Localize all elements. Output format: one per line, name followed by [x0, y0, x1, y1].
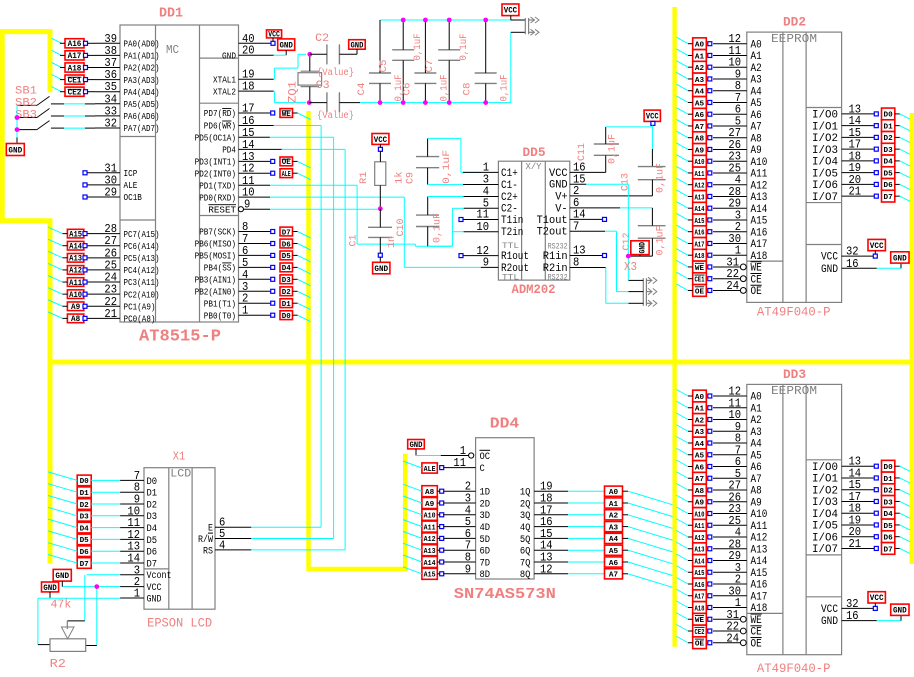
svg-text:ALE: ALE	[282, 171, 291, 179]
svg-text:GND: GND	[821, 616, 838, 628]
svg-text:Vcont: Vcont	[147, 571, 172, 582]
svg-text:VCC: VCC	[870, 593, 884, 603]
svg-text:PC1(A9): PC1(A9)	[124, 302, 156, 312]
svg-text:A10: A10	[694, 159, 704, 167]
svg-text:A4: A4	[695, 441, 705, 449]
svg-text:A2: A2	[751, 415, 762, 427]
net label A1 at DD4 output	[605, 498, 673, 517]
svg-text:CE: CE	[751, 627, 763, 639]
svg-text:A9: A9	[695, 147, 704, 155]
capacitor C10 0.1uF	[416, 197, 439, 247]
svg-text:C9: C9	[405, 172, 416, 184]
svg-text:20: 20	[242, 44, 255, 58]
DD3 pin 3 A15 wire	[713, 561, 767, 580]
net label CE2 at DD1	[52, 87, 95, 98]
DD4 pin 19 1Q wire	[520, 480, 605, 499]
wire RW to column	[251, 538, 333, 540]
svg-text:A15: A15	[424, 572, 436, 580]
net label D2 at DD1	[280, 287, 311, 298]
DD5 pin 7 T2out wire	[570, 230, 605, 232]
svg-text:A9: A9	[751, 497, 762, 509]
svg-text:A14: A14	[69, 243, 82, 252]
net label A11 at DD3	[676, 519, 711, 531]
net label A7 at DD3	[676, 472, 711, 484]
net label A15 at DD1	[48, 227, 87, 239]
DD3 pin 32 VCC wire	[821, 597, 877, 616]
DD5 pin 14 T1out	[537, 208, 586, 227]
DD1 pin 4 PB3(AIN1) wire	[195, 268, 275, 286]
DD1 pin 19 XTAL1 wire	[213, 68, 274, 86]
value 1n of C1	[387, 236, 398, 248]
svg-text:PA3(AD3): PA3(AD3)	[124, 76, 160, 86]
svg-text:D1: D1	[884, 476, 894, 484]
net label A13 at DD4	[403, 543, 440, 556]
svg-text:C6: C6	[402, 83, 413, 96]
svg-text:A4: A4	[695, 89, 705, 97]
svg-text:I/O7: I/O7	[812, 544, 838, 556]
net label A18 at DD2	[676, 249, 711, 261]
svg-text:A18: A18	[694, 605, 704, 613]
label C7	[425, 60, 436, 73]
svg-text:R2: R2	[50, 657, 66, 671]
svg-text:A11: A11	[751, 521, 768, 533]
svg-text:A5: A5	[751, 98, 762, 110]
svg-text:X1: X1	[173, 450, 185, 464]
svg-text:A2: A2	[751, 63, 762, 75]
wire VCC to C11 and C13	[606, 125, 653, 166]
DD3 pin 11 A1 wire	[713, 396, 762, 415]
label AT49F040-P of DD2	[757, 305, 831, 320]
label EPSON LCD	[147, 616, 212, 631]
ground GND upper at X1	[53, 569, 71, 586]
DD1 pin 16 wire	[239, 125, 274, 127]
svg-text:GND: GND	[821, 264, 838, 276]
svg-text:A10: A10	[751, 509, 768, 521]
svg-text:A4: A4	[751, 439, 763, 451]
DD3 pin 23 A10 wire	[713, 502, 767, 521]
DD1 pin 12 PD2(INT0)	[195, 162, 255, 180]
DD1 pin 32 PA7(AD7) wire	[95, 117, 160, 135]
svg-text:XTAL2: XTAL2	[213, 87, 236, 97]
DD2 pin 15 I/O2 wire	[812, 126, 874, 145]
DD5 pin 16 VCC	[549, 161, 586, 180]
wire XTAL2 to crystal bottom rail	[274, 91, 306, 103]
svg-text:A18: A18	[68, 64, 82, 73]
svg-text:8Q: 8Q	[520, 570, 531, 581]
svg-text:C1-: C1-	[501, 180, 518, 192]
DD5 pin 9 wire	[481, 266, 499, 268]
DD1 pin 16 PD6(WR)	[204, 114, 255, 132]
capacitor C7 0.1uF	[438, 20, 460, 103]
svg-text:DD2: DD2	[783, 15, 806, 30]
svg-text:RESET: RESET	[208, 205, 236, 215]
X1 pin 2 VCC wire	[120, 575, 161, 594]
svg-text:I/O3: I/O3	[812, 145, 838, 157]
DD2 pin 5 A7 wire	[713, 114, 762, 133]
capacitor C5 0.1uF	[392, 20, 414, 103]
svg-text:A13: A13	[751, 544, 768, 556]
bus mid vertical with DD4 branch	[309, 111, 406, 569]
wire C10 bottom to DD5 C2-	[428, 208, 464, 246]
svg-text:GND: GND	[893, 253, 907, 263]
DD1 pin 11 TXD wire	[239, 184, 271, 186]
DD3 pin 29 A14 wire	[713, 549, 768, 568]
svg-text:D1: D1	[282, 301, 292, 309]
value 0.1uF of C10	[433, 213, 444, 243]
svg-text:A2: A2	[609, 513, 618, 521]
net label A2 at DD2	[676, 61, 711, 73]
svg-text:PD4: PD4	[222, 146, 236, 156]
junction C6 bottom	[423, 100, 428, 105]
capacitor C6 0.1uF	[414, 20, 436, 103]
wire T2in tap	[452, 231, 463, 233]
DD4 pin 6 5D wire	[440, 527, 490, 546]
svg-text:D5: D5	[282, 253, 291, 261]
svg-text:PB0(T0): PB0(T0)	[204, 311, 236, 321]
svg-text:A17: A17	[751, 591, 768, 603]
net label A11 at DD1	[48, 276, 87, 288]
DD3 pin 24 OE wire	[713, 631, 762, 650]
svg-text:7D: 7D	[480, 558, 491, 569]
svg-text:16: 16	[846, 609, 859, 623]
DD1 pin 17 wire to WE label	[239, 111, 275, 115]
label C5	[379, 60, 390, 73]
net label D3 at X1	[48, 507, 120, 521]
svg-text:D3: D3	[282, 277, 291, 285]
DD5 pin 2 V+ wire	[570, 195, 653, 197]
net label D0 at DD1	[280, 311, 311, 322]
svg-text:A1: A1	[751, 51, 763, 63]
svg-text:2Q: 2Q	[520, 499, 531, 510]
svg-text:A12: A12	[751, 533, 768, 545]
DD2 pin 2 A16 wire	[713, 220, 767, 239]
net label D5 at DD2	[874, 167, 910, 179]
net label A0 at DD3	[676, 390, 711, 402]
net label A4 at DD2	[676, 84, 711, 96]
svg-text:1: 1	[134, 587, 140, 601]
net label A17 at DD1	[52, 50, 95, 61]
svg-text:47k: 47k	[51, 598, 72, 612]
DD2 pin 8 A4 wire	[713, 79, 762, 98]
svg-text:A5: A5	[609, 548, 618, 556]
svg-text:D7: D7	[80, 561, 89, 569]
svg-text:GND: GND	[638, 242, 648, 254]
DD2 pin 30 A17 wire	[713, 232, 767, 251]
DD5 pin 6 V-	[555, 196, 579, 215]
net label A7 at DD2	[676, 119, 711, 131]
net label A7 at DD4 output	[605, 569, 673, 588]
svg-text:A11: A11	[751, 169, 768, 181]
net label A12 at DD4	[403, 531, 440, 544]
label DD4	[490, 416, 520, 433]
DD3 pin 10 A2 wire	[713, 408, 762, 427]
svg-text:16: 16	[846, 257, 859, 271]
label SN74AS573N	[454, 586, 556, 603]
svg-text:GND: GND	[55, 571, 69, 581]
DD1 pin 10 RXD wire	[239, 196, 271, 198]
svg-text:A13: A13	[694, 194, 704, 202]
svg-text:SN74AS573N: SN74AS573N	[454, 586, 556, 603]
net label D3 at DD2	[874, 143, 910, 155]
net label A8 at DD3	[676, 484, 711, 496]
svg-text:PB1(T1): PB1(T1)	[204, 299, 236, 309]
DD2 pin 16 GND wire	[821, 257, 901, 276]
wire GND pin to R2 left	[38, 598, 120, 644]
net label A4 at DD3	[676, 437, 711, 449]
svg-text:8D: 8D	[480, 570, 491, 581]
svg-text:C10: C10	[396, 219, 407, 237]
svg-text:A12: A12	[751, 180, 768, 192]
svg-text:A14: A14	[694, 206, 705, 214]
DD3 pin 8 A4 wire	[713, 432, 762, 451]
net label A14 at DD3	[676, 554, 711, 566]
DD1 pin 14 PD4	[222, 138, 254, 156]
svg-text:DD4: DD4	[490, 416, 520, 433]
svg-text:A9: A9	[751, 145, 762, 157]
DD1 pin 3 PB2(AIN0) wire	[195, 280, 275, 298]
DD1 pin 13 PD3(INT1)	[195, 150, 255, 168]
net label CE1 at DD2	[676, 272, 711, 284]
svg-text:I/O6: I/O6	[812, 532, 838, 544]
DD1 pin 13 wire to OE label	[239, 159, 275, 163]
DD2 pin 19 I/O5 wire	[812, 161, 874, 180]
DD5 pin 15 GND	[549, 172, 586, 191]
label C10	[396, 219, 407, 237]
DD5 pin 5 wire	[464, 207, 499, 209]
svg-text:I/O0: I/O0	[812, 110, 838, 122]
svg-text:9: 9	[244, 198, 250, 212]
svg-text:A8: A8	[695, 136, 704, 144]
wire E to column	[251, 526, 321, 528]
DD4 pin 2 1D wire	[440, 480, 490, 499]
wire SB common rail to GND	[16, 105, 18, 143]
svg-text:A10: A10	[751, 157, 768, 169]
svg-text:VCC: VCC	[821, 604, 838, 616]
svg-text:A10: A10	[69, 291, 82, 300]
svg-text:D3: D3	[147, 512, 158, 523]
svg-text:DD3: DD3	[783, 367, 806, 382]
DD3 pin 6 A6 wire	[713, 455, 762, 474]
svg-text:PB4(SS): PB4(SS)	[204, 264, 236, 274]
DD1 pin 27 PC6(A14) wire	[86, 234, 160, 252]
DD4 pin 3 2D wire	[440, 492, 490, 511]
net label A6 at DD3	[676, 460, 711, 472]
DD1 pin 36 PA3(AD3) wire	[95, 68, 160, 86]
svg-text:GND: GND	[147, 594, 162, 605]
net label A16 at DD1	[52, 38, 95, 49]
net label A18 at DD1	[52, 63, 95, 74]
DD3 pin 20 I/O6 wire	[812, 525, 874, 544]
net label D2 at DD3	[874, 484, 910, 496]
svg-text:OE: OE	[751, 286, 763, 298]
svg-text:A15: A15	[69, 230, 82, 239]
svg-text:D3: D3	[884, 499, 893, 507]
DD2 pin 4 A12 wire	[713, 173, 767, 192]
svg-text:D5: D5	[147, 536, 158, 547]
svg-text:A14: A14	[751, 556, 768, 568]
svg-text:A11: A11	[69, 279, 82, 288]
svg-text:A3: A3	[751, 75, 762, 87]
DD3 pin 2 A16 wire	[713, 573, 767, 592]
net label D4 at DD2	[874, 155, 910, 167]
power GND at DD2	[891, 252, 909, 263]
svg-text:1Q: 1Q	[520, 488, 531, 499]
svg-text:ALE: ALE	[424, 466, 437, 474]
svg-text:GND: GND	[409, 440, 422, 450]
svg-text:EEPROM: EEPROM	[771, 384, 817, 398]
DD3 pin 21 I/O7 wire	[812, 537, 874, 556]
svg-text:A14: A14	[694, 558, 705, 566]
svg-text:A9: A9	[425, 501, 434, 509]
net label A14 at DD4	[403, 555, 440, 568]
svg-text:VCC: VCC	[870, 241, 884, 251]
switch SB2	[17, 109, 95, 118]
net label A17 at DD3	[676, 589, 711, 601]
label R1	[359, 172, 370, 185]
net label A11 at DD2	[676, 166, 711, 178]
DD1 pin 28 PC7(A15) wire	[86, 222, 160, 240]
net label D2 at DD2	[874, 132, 910, 144]
power VCC at input connector	[502, 4, 519, 20]
DD4 pin 15 5Q wire	[520, 527, 605, 546]
svg-text:I/O5: I/O5	[812, 168, 838, 180]
label C11	[577, 143, 588, 161]
DD3 pin 9 A3 wire	[713, 420, 762, 439]
value {Value} of C3	[317, 110, 354, 122]
svg-text:PD0(RXD): PD0(RXD)	[199, 193, 236, 203]
power VCC at DD2	[868, 239, 885, 254]
svg-text:SB1: SB1	[15, 86, 37, 98]
svg-text:0,1uF: 0,1uF	[500, 75, 511, 102]
svg-text:A11: A11	[424, 524, 437, 532]
net label D6 at DD3	[874, 531, 910, 543]
DD4 pin 5 4D wire	[440, 515, 490, 534]
power GND at DD1 pin 20	[274, 39, 295, 55]
net label D5 at X1	[48, 531, 120, 545]
crystal ZQ1	[298, 54, 322, 102]
svg-text:A14: A14	[424, 560, 437, 568]
svg-text:1n: 1n	[387, 236, 398, 248]
svg-text:D4: D4	[147, 524, 158, 535]
svg-text:R/W: R/W	[198, 534, 213, 546]
svg-text:PC6(A14): PC6(A14)	[124, 242, 160, 252]
svg-text:T1out: T1out	[537, 215, 568, 227]
svg-text:A1: A1	[695, 53, 705, 61]
net label A9 at DD4	[403, 496, 440, 509]
DD2 pin 7 A5 wire	[713, 91, 762, 110]
wire VCC rail top	[380, 20, 511, 73]
label SB3	[15, 110, 37, 122]
svg-text:A11: A11	[694, 523, 705, 531]
svg-text:CE: CE	[751, 274, 763, 286]
svg-text:A12: A12	[694, 183, 704, 191]
svg-text:D4: D4	[282, 265, 292, 273]
svg-text:A0: A0	[609, 489, 618, 497]
value 47k of R2	[51, 598, 72, 612]
svg-text:A6: A6	[751, 110, 762, 122]
junction C8 top	[483, 18, 488, 23]
value 0.1uF of C5	[413, 34, 424, 61]
ground GND at C1	[373, 262, 390, 274]
svg-text:C: C	[480, 464, 485, 475]
DD2 pin 32 VCC wire	[821, 245, 877, 264]
net label A11 at DD4	[403, 520, 440, 533]
value 0.1uF of C12	[656, 226, 667, 256]
DD5 pin 12 R1out	[476, 244, 529, 263]
svg-text:A17: A17	[694, 594, 704, 602]
DD1 pin 29 OC1B wire	[83, 186, 142, 204]
power GND at C2	[349, 40, 366, 55]
svg-text:A9: A9	[695, 500, 704, 508]
svg-text:I/O5: I/O5	[812, 521, 838, 533]
net label A12 at DD1	[48, 263, 87, 275]
net label D1 at X1	[48, 484, 120, 498]
net label D7 at X1	[48, 555, 120, 569]
svg-text:PA2(AD2): PA2(AD2)	[124, 64, 160, 74]
net label A9 at DD2	[676, 143, 711, 155]
ground GND near X3	[631, 241, 649, 256]
junction C7 bottom	[447, 100, 452, 105]
svg-text:A1: A1	[695, 406, 705, 414]
svg-text:PB2(AIN0): PB2(AIN0)	[195, 288, 236, 298]
svg-text:R2out: R2out	[501, 263, 529, 275]
net label D6 at DD1	[280, 239, 311, 250]
net label D5 at DD1	[280, 251, 311, 262]
svg-text:GND: GND	[893, 606, 907, 616]
svg-text:ADM202: ADM202	[512, 282, 556, 297]
svg-text:D2: D2	[147, 500, 158, 511]
svg-text:0,1uF: 0,1uF	[656, 226, 667, 256]
svg-text:D0: D0	[147, 477, 158, 488]
svg-text:D5: D5	[884, 170, 893, 178]
svg-text:PC0(A8): PC0(A8)	[124, 315, 156, 325]
svg-text:A13: A13	[424, 548, 436, 556]
svg-text:PA1(AD1): PA1(AD1)	[124, 52, 160, 62]
DD5 pin 10 T2in	[476, 220, 523, 239]
svg-text:V+: V+	[555, 191, 567, 203]
net label A10 at DD1	[48, 288, 87, 300]
X1 pin 5 R/W wire	[198, 527, 251, 546]
bus top-left loop	[2, 32, 50, 564]
DD1 pin 14 wire	[239, 148, 282, 150]
DD3 pin 14 I/O1 wire	[812, 466, 874, 485]
svg-text:TTL: TTL	[502, 242, 519, 251]
svg-text:D6: D6	[884, 535, 893, 543]
svg-text:CE2: CE2	[68, 89, 82, 98]
net label CE2 at DD3	[676, 625, 711, 637]
DD5 pin 14 T1out wire terminal	[570, 217, 607, 221]
svg-text:C1+: C1+	[501, 168, 518, 180]
svg-text:A16: A16	[751, 580, 768, 592]
DD3 pin 5 A7 wire	[713, 467, 762, 486]
wire R2in to X3	[606, 268, 629, 304]
DD3 pin 12 A0 wire	[713, 385, 762, 404]
junction C5 bottom	[401, 100, 406, 105]
svg-text:PD5(OC1A): PD5(OC1A)	[195, 134, 236, 144]
net label OE at DD2	[676, 284, 711, 296]
DD1 pin 15 PD5(OC1A)	[195, 126, 255, 144]
net label A2 at DD4 output	[605, 510, 673, 529]
svg-text:AT49F040-P: AT49F040-P	[757, 305, 831, 320]
DD3 pin 22 CE wire	[713, 620, 762, 639]
wire Vcont to R2 wiper	[67, 575, 120, 621]
svg-text:A7: A7	[695, 476, 704, 484]
IC DD5 ADM202 body	[498, 161, 569, 282]
net label A1 at DD3	[676, 401, 711, 413]
svg-text:A0: A0	[695, 394, 704, 402]
svg-text:GND: GND	[374, 264, 388, 274]
svg-text:C11: C11	[577, 143, 588, 161]
